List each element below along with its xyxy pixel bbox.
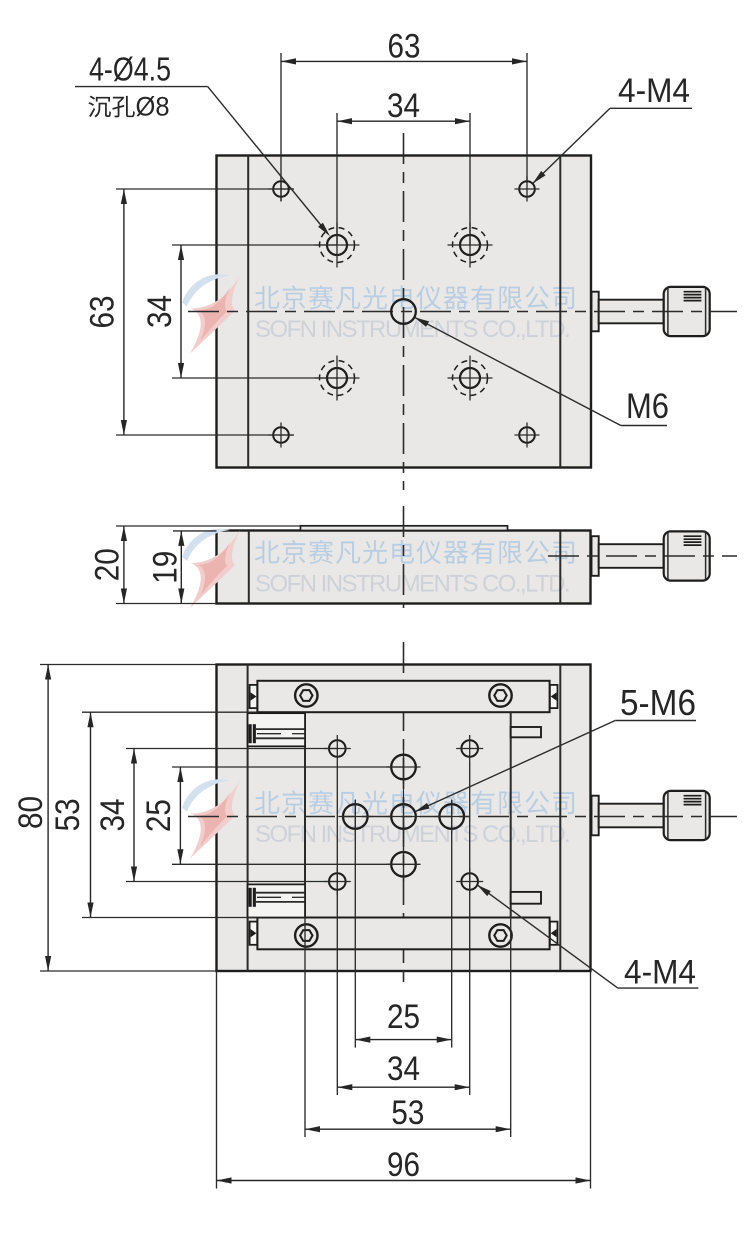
watermark logo and company name on bottom view: [182, 779, 230, 811]
watermark logo and company name on side view: [182, 529, 230, 561]
bottom view horizontal centerline: [188, 816, 737, 818]
svg-text:5-M6: 5-M6: [620, 682, 696, 723]
side view moving platform strip: [301, 526, 508, 531]
dim 25 bottom: [355, 1039, 451, 1041]
watermark logo and company name on top view: [182, 274, 230, 306]
svg-text:Ø8: Ø8: [136, 92, 170, 122]
bottom view M4 hole at (469.7,881.5): [461, 873, 478, 890]
svg-text:34: 34: [387, 87, 420, 125]
svg-text:20: 20: [89, 548, 127, 581]
ext lines 96 bottom: [216, 971, 218, 1189]
top view counterbore hole at (337,378): [327, 368, 347, 388]
dim 25 left: [179, 767, 181, 864]
bottom view clamp screw pocket: [248, 713, 305, 746]
bottom view left rail boundary line: [247, 665, 249, 972]
top view counterbore hole at (337,245): [327, 235, 347, 255]
top view M4 tapped hole at (281,435): [273, 427, 289, 443]
top view M4 tapped hole at (527,189): [519, 181, 535, 197]
bottom view rail end bracket: [250, 685, 258, 708]
ext lines 53 bottom: [304, 918, 306, 1138]
top view right rail boundary line: [559, 156, 561, 468]
ext line center column holes: [403, 753, 405, 878]
svg-text:25: 25: [387, 998, 420, 1036]
ext lines 80 left: [40, 664, 217, 666]
bottom view bottom guide rail: [257, 918, 549, 950]
svg-text:53: 53: [391, 1094, 424, 1132]
bottom view moving square left edge: [304, 712, 306, 917]
bottom view top guide rail: [257, 681, 549, 712]
svg-text:96: 96: [387, 1146, 420, 1184]
top view center M6 hole: [391, 299, 416, 324]
bottom view micrometer knob: [592, 796, 599, 836]
bottom view M6 hole at (403.5,864.3): [391, 852, 416, 877]
ext lines 25 left: [172, 766, 404, 768]
dim 34 left: [133, 749, 135, 882]
ext lines 34 left: [126, 748, 337, 750]
label M6 leader: [621, 425, 667, 427]
bottom view rail end bracket: [550, 685, 558, 708]
top view plate body fill: [217, 156, 592, 468]
bottom view plate body fill: [217, 665, 591, 972]
label 4-M4 top right leader: [610, 107, 692, 109]
side view right rail boundary line: [559, 531, 561, 604]
dim 80 left: [47, 665, 49, 972]
svg-text:4-M4: 4-M4: [624, 954, 696, 992]
side view base fill: [217, 531, 591, 604]
bottom view M6 hole at (451.7,816.5): [439, 804, 464, 829]
bottom view moving square right edge: [510, 712, 512, 917]
ext lines 25 bottom: [354, 800, 356, 1048]
dim 19 side extension line: [173, 530, 217, 532]
bottom view right tab upper: [511, 727, 541, 737]
bottom view rail end bracket: [250, 922, 258, 945]
svg-text:4-M4: 4-M4: [618, 72, 690, 110]
top view counterbore hole at (470,245): [460, 235, 480, 255]
svg-text:53: 53: [49, 798, 87, 831]
bottom view M6 hole at (403.5,816.5): [391, 804, 416, 829]
dim 96 bottom: [217, 1180, 591, 1182]
bottom view rail screw at (500.5,935.5): [489, 924, 511, 946]
dim 20 side: [123, 526, 125, 604]
dim 19 side: [180, 531, 182, 604]
dim 20 side extension lines: [116, 525, 301, 527]
dim 63 left: [123, 189, 125, 435]
dim 34 bottom: [337, 1086, 469, 1088]
bottom view M6 hole at (403.5,767): [391, 755, 416, 780]
dim 34 top extension lines: [336, 113, 338, 245]
dim 63 top extension lines: [280, 53, 282, 201]
top view counterbore hole at (470,378): [460, 368, 480, 388]
bottom view M4 hole at (469.7,748.5): [461, 740, 478, 757]
top view vertical centerline: [403, 133, 405, 490]
label 5-M6 leader: [615, 720, 696, 722]
top view M4 tapped hole at (281,189): [273, 181, 289, 197]
svg-text:34: 34: [94, 799, 132, 832]
ext lines 34 bottom: [336, 762, 338, 1095]
svg-text:25: 25: [140, 799, 178, 832]
bottom view clamp screw pocket: [248, 884, 305, 917]
dim 53 bottom: [305, 1128, 511, 1130]
svg-text:4-Ø4.5: 4-Ø4.5: [89, 51, 171, 88]
bottom view right tab lower: [511, 892, 541, 904]
bottom view rail end bracket: [550, 922, 558, 945]
svg-text:34: 34: [141, 295, 179, 328]
svg-text:34: 34: [387, 1050, 420, 1088]
bottom view M4 hole at (337.3,748.5): [329, 740, 346, 757]
bottom view M6 hole at (355.3,816.5): [343, 804, 368, 829]
bottom view rail screw at (500.5,695.5): [489, 684, 511, 706]
top view M4 tapped hole at (527,435): [519, 427, 535, 443]
svg-text:19: 19: [147, 551, 185, 584]
dim 63 top: [281, 60, 527, 62]
ext lines 53 left: [82, 711, 257, 713]
dim 63 left extension lines: [116, 188, 294, 190]
label 4-diam4.5 leader line: [75, 86, 208, 88]
svg-text:M6: M6: [626, 387, 669, 426]
top view horizontal centerline: [188, 311, 737, 313]
svg-text:63: 63: [84, 296, 122, 329]
top view micrometer knob: [592, 292, 599, 332]
side view knob horizontal centerline: [548, 555, 737, 557]
dim 34 left extension lines: [172, 244, 337, 246]
dim 34 top: [337, 120, 470, 122]
bottom view right rail boundary line: [559, 665, 561, 972]
label 4-M4 bottom leader: [618, 987, 699, 989]
svg-text:80: 80: [12, 796, 50, 829]
dim 53 left: [90, 712, 92, 917]
bottom view vertical centerline: [403, 642, 405, 990]
dim 34 left: [180, 245, 182, 378]
side view micrometer knob: [592, 536, 599, 576]
side view left rail boundary line: [248, 531, 250, 604]
svg-text:SOFN INSTRUMENTS CO.,LTD.: SOFN INSTRUMENTS CO.,LTD.: [255, 571, 569, 598]
top view left rail boundary line: [247, 156, 249, 468]
side view vertical centerline: [403, 506, 405, 608]
bottom view rail screw at (306.3,695.5): [295, 684, 317, 706]
svg-text:63: 63: [388, 28, 421, 66]
bottom view M4 hole at (337.3,881.5): [329, 873, 346, 890]
bottom view rail screw at (306.3,935.5): [295, 924, 317, 946]
